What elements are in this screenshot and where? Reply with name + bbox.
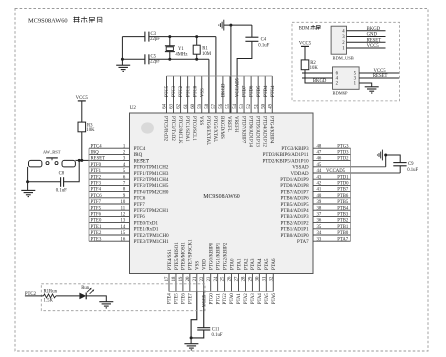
svg-text:RESET: RESET bbox=[91, 157, 106, 162]
U2 pin 27 PTA1 bbox=[235, 258, 243, 292]
svg-text:PTA1: PTA1 bbox=[237, 293, 242, 305]
svg-text:PTC4: PTC4 bbox=[91, 144, 103, 149]
svg-text:PTB2/AD1P2: PTB2/AD1P2 bbox=[281, 221, 310, 226]
svg-text:RESET: RESET bbox=[373, 74, 388, 79]
U2 pin 37 PTB3/AD1P3 bbox=[281, 213, 351, 221]
svg-text:MC9S08AW60: MC9S08AW60 bbox=[28, 18, 68, 25]
U2 pin 52 PTD6/AD1P14 bbox=[247, 76, 252, 147]
wire crystal bottom left segment bbox=[122, 58, 144, 60]
svg-text:PTC3/TxD2: PTC3/TxD2 bbox=[170, 116, 175, 141]
svg-text:PTD7/KBIP7: PTD7/KBIP7 bbox=[240, 116, 245, 144]
svg-text:PTF3/TPM1CH5: PTF3/TPM1CH5 bbox=[134, 184, 169, 189]
svg-text:55: 55 bbox=[226, 103, 231, 108]
svg-text:PTB7: PTB7 bbox=[337, 188, 349, 193]
svg-text:R1: R1 bbox=[202, 47, 208, 52]
junction R1 top bbox=[195, 35, 198, 38]
svg-text:U2: U2 bbox=[130, 106, 137, 111]
svg-text:PTF5: PTF5 bbox=[91, 206, 102, 211]
U2 pin 56 BKGD/MS bbox=[219, 76, 224, 139]
svg-text:PTF0/TPM1CH2: PTF0/TPM1CH2 bbox=[134, 166, 169, 171]
U2 pin 6 PTF2/TPM1CH4 bbox=[89, 175, 169, 183]
svg-text:PTD2: PTD2 bbox=[337, 157, 349, 162]
crystal Y1 bbox=[165, 37, 188, 60]
svg-text:VCCAD5: VCCAD5 bbox=[326, 169, 346, 174]
svg-text:BDM6P: BDM6P bbox=[333, 91, 349, 96]
svg-text:PTE3: PTE3 bbox=[91, 237, 102, 242]
svg-text:PTF6: PTF6 bbox=[134, 215, 146, 220]
junction at C5/ground bbox=[121, 58, 124, 61]
svg-text:PTE0: PTE0 bbox=[91, 219, 102, 224]
svg-text:PTG5/XTAL: PTG5/XTAL bbox=[212, 116, 217, 142]
svg-text:46: 46 bbox=[317, 157, 322, 162]
svg-text:PTA1: PTA1 bbox=[237, 258, 242, 270]
svg-text:PTF7: PTF7 bbox=[134, 203, 146, 208]
svg-text:31: 31 bbox=[262, 276, 267, 281]
svg-text:PTG2: PTG2 bbox=[223, 293, 228, 305]
svg-text:PTA0: PTA0 bbox=[230, 293, 235, 305]
svg-text:VCC5: VCC5 bbox=[76, 96, 89, 101]
svg-text:PTB7/AD1P7: PTB7/AD1P7 bbox=[281, 190, 310, 195]
wire XTAL node down to pin 57 bbox=[215, 37, 217, 113]
U2 pin 36 PTB2/AD1P2 bbox=[281, 219, 351, 227]
svg-text:52: 52 bbox=[247, 103, 252, 108]
wire BDM_USB pin 3 bbox=[347, 35, 386, 37]
svg-text:PTG4/KBIP4: PTG4/KBIP4 bbox=[268, 116, 273, 144]
svg-text:PTG1/KBIP1: PTG1/KBIP1 bbox=[216, 242, 221, 270]
svg-text:54: 54 bbox=[233, 103, 238, 108]
svg-text:PTA5: PTA5 bbox=[265, 258, 270, 270]
svg-text:PTC2/MCLK: PTC2/MCLK bbox=[177, 116, 182, 144]
U2 pin 13 PTE0/TxD1 bbox=[89, 219, 159, 227]
resistor R1 10M bbox=[193, 37, 212, 60]
svg-text:13: 13 bbox=[120, 219, 125, 224]
U2 pin 54 VREFH bbox=[233, 76, 238, 133]
junction Y1 top bbox=[168, 35, 171, 38]
U2 pin 14 PTE1/RxD1 bbox=[89, 225, 159, 233]
wire VCC5 to R2 bbox=[304, 46, 306, 60]
svg-text:PTB0: PTB0 bbox=[337, 231, 349, 236]
svg-text:PTD0/AD1P8: PTD0/AD1P8 bbox=[280, 184, 309, 189]
svg-text:14: 14 bbox=[120, 225, 125, 230]
U2 pin 43 PTD1/AD1P9 bbox=[280, 175, 350, 183]
wire resistor to LED bbox=[56, 295, 80, 297]
svg-text:GND: GND bbox=[367, 33, 378, 38]
junction VREFL bbox=[229, 24, 232, 27]
U2 pin 60 PTC0/SCL1 bbox=[191, 76, 196, 141]
svg-text:59: 59 bbox=[198, 103, 203, 108]
U2 pin 8 PTF4/TPM2CH0 bbox=[89, 188, 169, 196]
svg-text:PTE1/RxD1: PTE1/RxD1 bbox=[134, 228, 159, 233]
svg-text:62: 62 bbox=[177, 103, 182, 108]
svg-text:PTA7: PTA7 bbox=[297, 240, 309, 245]
svg-text:IRQ: IRQ bbox=[134, 153, 143, 158]
svg-text:PTE2/TPM1CH0: PTE2/TPM1CH0 bbox=[134, 234, 170, 239]
svg-text:PTA4: PTA4 bbox=[258, 258, 263, 270]
junction VSSAD ground bbox=[384, 154, 387, 157]
svg-text:PTB4/AD1P4: PTB4/AD1P4 bbox=[281, 209, 310, 214]
resistor R2 10K bbox=[301, 60, 318, 71]
wire C4 top stem bbox=[251, 25, 253, 37]
wire R2 to BKGD row bbox=[305, 70, 333, 83]
connector BDM6P bbox=[333, 67, 360, 96]
VCC5 power above R3 bbox=[76, 96, 89, 101]
svg-text:RESET: RESET bbox=[134, 159, 149, 164]
svg-text:58: 58 bbox=[205, 103, 210, 108]
svg-text:VSS: VSS bbox=[198, 116, 203, 125]
svg-text:PTG4: PTG4 bbox=[271, 85, 276, 97]
wire BDM6P pin 4 stub bbox=[302, 77, 333, 79]
svg-text:PTF6: PTF6 bbox=[91, 213, 102, 218]
svg-text:PTA6: PTA6 bbox=[272, 293, 277, 305]
bottom net-label row edge bbox=[169, 291, 273, 293]
svg-text:40: 40 bbox=[317, 194, 322, 199]
svg-text:VCC5: VCC5 bbox=[367, 44, 380, 49]
svg-text:22: 22 bbox=[200, 276, 205, 281]
U2 pin 38 PTB4/AD1P4 bbox=[281, 206, 351, 214]
svg-text:PTE4: PTE4 bbox=[168, 293, 173, 304]
svg-text:35: 35 bbox=[317, 225, 322, 230]
svg-text:PTE2: PTE2 bbox=[91, 231, 102, 236]
svg-text:R1Run: R1Run bbox=[44, 290, 58, 295]
svg-text:PTE6: PTE6 bbox=[182, 293, 187, 304]
capacitor C9 0.1uF bbox=[393, 162, 418, 173]
U2 pin 47 PTD3/KBIP6/AD1P11 bbox=[263, 151, 351, 159]
svg-text:30: 30 bbox=[255, 276, 260, 281]
svg-text:53: 53 bbox=[240, 103, 245, 108]
svg-text:PTG3: PTG3 bbox=[337, 144, 349, 149]
svg-text:33: 33 bbox=[317, 237, 322, 242]
svg-text:32: 32 bbox=[269, 276, 274, 281]
junction Y1 bottom bbox=[168, 58, 171, 61]
U2 pin 34 PTB0/AD1P0 bbox=[281, 231, 351, 239]
svg-text:PTG3/KBIP3: PTG3/KBIP3 bbox=[281, 147, 309, 152]
svg-text:PTE5/MISO1: PTE5/MISO1 bbox=[175, 242, 180, 270]
wire C9 bottom to VDDAD row bbox=[399, 166, 401, 173]
wire EXTAL node down to pin 58 bbox=[208, 59, 210, 113]
svg-text:VSS: VSS bbox=[196, 261, 201, 270]
svg-text:C11: C11 bbox=[212, 327, 220, 332]
svg-text:VDDAD: VDDAD bbox=[291, 172, 309, 177]
svg-text:BKGD/MS: BKGD/MS bbox=[219, 116, 224, 139]
svg-text:0.1uF: 0.1uF bbox=[56, 189, 67, 194]
svg-text:PTD0: PTD0 bbox=[337, 182, 349, 187]
U2 pin 44 VDDAD bbox=[291, 169, 401, 177]
U2 pin 4 PTF0/TPM1CH2 bbox=[89, 163, 169, 171]
svg-text:56: 56 bbox=[219, 103, 224, 108]
wire BDM6P pin 5 to VCC5 bbox=[359, 72, 399, 74]
svg-text:43: 43 bbox=[317, 175, 322, 180]
right net-label column edge bbox=[350, 148, 352, 241]
U2 pin 63 PTC3/TxD2 bbox=[170, 76, 175, 141]
U2 pin 49 PTG4/KBIP4 bbox=[268, 76, 273, 144]
U2 pin 28 PTA2 bbox=[242, 258, 250, 292]
U2 pin 58 PTG6/EXTAL bbox=[205, 76, 210, 145]
svg-text:PTC6: PTC6 bbox=[91, 194, 103, 199]
svg-text:39: 39 bbox=[317, 200, 322, 205]
wire RESET row to switch bbox=[75, 159, 89, 161]
U2 pin 41 PTB7/AD1P7 bbox=[281, 188, 351, 196]
ground below C11 bbox=[184, 344, 198, 350]
svg-text:PTF7: PTF7 bbox=[91, 200, 102, 205]
top net-label row edge bbox=[167, 75, 273, 77]
BDM section title bbox=[299, 25, 321, 31]
wire BDM6P pin 3 to RESET bbox=[359, 77, 399, 79]
wire BDM_USB pin 1 bbox=[347, 47, 386, 49]
svg-text:MC9S08AW60: MC9S08AW60 bbox=[203, 194, 240, 200]
svg-text:PTC0: PTC0 bbox=[193, 85, 198, 97]
U2 pin 21 VSS bbox=[193, 261, 201, 292]
svg-text:29: 29 bbox=[249, 276, 254, 281]
svg-text:PTB0/AD1P0: PTB0/AD1P0 bbox=[281, 234, 310, 239]
svg-text:PTE0/TxD1: PTE0/TxD1 bbox=[134, 221, 159, 226]
svg-text:PTE3/TPM1CH1: PTE3/TPM1CH1 bbox=[134, 240, 170, 245]
svg-text:0.1uF: 0.1uF bbox=[212, 333, 223, 338]
svg-text:10K: 10K bbox=[86, 128, 95, 133]
U2 pin 62 PTC2/MCLK bbox=[177, 76, 182, 144]
U2 pin 46 PTD2/KBIP5/AD1P10 bbox=[262, 157, 350, 165]
svg-text:64: 64 bbox=[163, 103, 168, 108]
U2 pin 40 PTB6/AD1P6 bbox=[281, 194, 351, 202]
U2 pin 42 PTD0/AD1P8 bbox=[280, 182, 350, 190]
svg-text:VSS: VSS bbox=[200, 88, 205, 97]
svg-text:AW_RST: AW_RST bbox=[43, 149, 61, 154]
svg-text:VCC5: VCC5 bbox=[299, 42, 312, 47]
svg-text:PTE7: PTE7 bbox=[188, 293, 193, 304]
resistor R3 10K bbox=[78, 122, 95, 133]
svg-text:PTF1/TPM1CH3: PTF1/TPM1CH3 bbox=[134, 172, 169, 177]
wire PTC2 to resistor bbox=[25, 295, 44, 297]
svg-text:PTA2: PTA2 bbox=[244, 258, 249, 270]
svg-text:PTB5/AD1P5: PTB5/AD1P5 bbox=[281, 203, 310, 208]
svg-text:PTB1/AD1P1: PTB1/AD1P1 bbox=[281, 228, 310, 233]
U2 pin 45 VSSAD bbox=[292, 163, 386, 171]
LED indicator dashed box bbox=[41, 284, 205, 311]
svg-text:PTF1: PTF1 bbox=[91, 169, 102, 174]
svg-text:PTD6: PTD6 bbox=[250, 85, 255, 97]
svg-text:BDM: BDM bbox=[299, 26, 311, 31]
svg-text:4MHz: 4MHz bbox=[175, 52, 187, 57]
svg-text:PTD4: PTD4 bbox=[264, 85, 269, 97]
U2 pin 23 PTG0/KBIP0 bbox=[207, 242, 215, 291]
svg-text:42: 42 bbox=[317, 182, 322, 187]
svg-text:PTB3: PTB3 bbox=[337, 213, 349, 218]
connector BDM_USB bbox=[331, 26, 354, 60]
svg-text:21: 21 bbox=[193, 276, 198, 281]
svg-text:50: 50 bbox=[261, 103, 266, 108]
wire ground stem below C11 bbox=[190, 338, 192, 344]
svg-text:BDM_USB: BDM_USB bbox=[333, 56, 354, 61]
U2 pin 57 PTG5/XTAL bbox=[212, 76, 217, 142]
svg-text:PTA7: PTA7 bbox=[337, 237, 349, 242]
svg-text:26: 26 bbox=[228, 276, 233, 281]
capacitor C11 0.1uF bbox=[197, 327, 223, 338]
svg-text:PTG2/KBIP2: PTG2/KBIP2 bbox=[223, 242, 228, 270]
svg-text:PTA5: PTA5 bbox=[265, 293, 270, 305]
svg-text:PTB5: PTB5 bbox=[337, 200, 349, 205]
svg-text:PTE7/SPSCK1: PTE7/SPSCK1 bbox=[189, 239, 194, 270]
svg-text:C4: C4 bbox=[261, 37, 267, 42]
svg-text:VDD: VDD bbox=[203, 259, 208, 270]
U2 pin 10 PTF7 bbox=[89, 200, 145, 208]
U2 pin 48 PTG3/KBIP3 bbox=[281, 144, 350, 152]
svg-text:PTF0: PTF0 bbox=[91, 163, 102, 168]
svg-text:PTC3: PTC3 bbox=[172, 85, 177, 97]
capacitor C5 bbox=[145, 54, 160, 64]
svg-text:PTC5/RxD2: PTC5/RxD2 bbox=[163, 116, 168, 142]
U2 pin 35 PTB1/AD1P1 bbox=[281, 225, 351, 233]
svg-text:0.1uF: 0.1uF bbox=[407, 168, 418, 173]
svg-text:45: 45 bbox=[317, 163, 322, 168]
svg-text:0.1uF: 0.1uF bbox=[258, 44, 269, 49]
wire BDM_USB pin 4 bbox=[347, 30, 386, 32]
svg-text:PTC6: PTC6 bbox=[134, 197, 146, 202]
U2 pin 31 PTA5 bbox=[262, 258, 270, 292]
U2 pin 61 PTC1/SDA1 bbox=[184, 76, 189, 142]
wire C8 to RESET junction bbox=[64, 160, 80, 181]
svg-text:PTA2: PTA2 bbox=[244, 293, 249, 305]
svg-text:PTB6: PTB6 bbox=[337, 194, 349, 199]
svg-text:41: 41 bbox=[317, 188, 322, 193]
U2 pin 26 PTA0 bbox=[228, 258, 236, 292]
wire ground stem below C5 bbox=[121, 59, 123, 65]
svg-text:PTC4: PTC4 bbox=[134, 147, 146, 152]
U2 pin 32 PTA6 bbox=[269, 258, 277, 292]
svg-text:BKGD: BKGD bbox=[313, 79, 327, 84]
U2 pin 17 PTE4/SS1 bbox=[165, 249, 173, 292]
svg-text:12: 12 bbox=[120, 213, 125, 218]
svg-text:60: 60 bbox=[191, 103, 196, 108]
svg-text:PTD5/AD1P13: PTD5/AD1P13 bbox=[254, 116, 259, 147]
svg-text:PTC1/SDA1: PTC1/SDA1 bbox=[184, 116, 189, 142]
svg-text:22pF: 22pF bbox=[150, 37, 160, 42]
svg-text:PTF2: PTF2 bbox=[91, 175, 102, 180]
svg-text:PTF4/TPM2CH0: PTF4/TPM2CH0 bbox=[134, 190, 169, 195]
svg-text:PTE1: PTE1 bbox=[91, 225, 102, 230]
svg-text:BKGD: BKGD bbox=[367, 27, 381, 32]
svg-text:VREFH: VREFH bbox=[233, 116, 238, 133]
svg-text:PTF5/TPM2CH1: PTF5/TPM2CH1 bbox=[134, 209, 169, 214]
svg-text:28: 28 bbox=[242, 276, 247, 281]
svg-text:48: 48 bbox=[317, 144, 322, 149]
svg-text:49: 49 bbox=[268, 103, 273, 108]
wire R3 to RESET node bbox=[81, 132, 83, 161]
svg-text:PTD2/KBIP5/AD1P10: PTD2/KBIP5/AD1P10 bbox=[262, 159, 309, 164]
U2 pin 50 PTD4/AD1P12 bbox=[261, 76, 266, 147]
U2 pin 2 IRQ bbox=[89, 151, 143, 159]
svg-text:61: 61 bbox=[184, 103, 189, 108]
pushbutton AW_RST bbox=[29, 149, 76, 167]
left net-label column edge bbox=[88, 148, 90, 241]
wire VDD pin 22 down bbox=[203, 292, 205, 328]
U2 pin 55 VREFL bbox=[226, 76, 231, 132]
U2 pin 59 VSS bbox=[198, 76, 203, 125]
svg-text:22pF: 22pF bbox=[150, 60, 160, 65]
wire C11 bottom to junction bbox=[191, 330, 204, 338]
LED Run bbox=[79, 286, 94, 300]
chip U2 MC9S08AW60 body bbox=[130, 113, 314, 274]
svg-text:PTD1/AD1P9: PTD1/AD1P9 bbox=[280, 178, 309, 183]
svg-text:PTE4/SS1: PTE4/SS1 bbox=[168, 249, 173, 270]
U2 pin 25 PTG2/KBIP2 bbox=[221, 242, 229, 291]
svg-text:PTC0/SCL1: PTC0/SCL1 bbox=[191, 116, 196, 141]
svg-text:PTB2: PTB2 bbox=[337, 219, 349, 224]
svg-text:47: 47 bbox=[317, 151, 322, 156]
U2 pin 12 PTF6 bbox=[89, 213, 145, 221]
svg-text:1.5K: 1.5K bbox=[44, 298, 54, 303]
svg-text:VCCAD5: VCCAD5 bbox=[236, 77, 241, 97]
U2 pin 11 PTF5/TPM2CH1 bbox=[89, 206, 169, 214]
wire BDM6P pin 6 stub bbox=[302, 72, 333, 74]
resistor R1Run 1.5K (zigzag) bbox=[44, 290, 58, 304]
wire bottom row to C8 bbox=[28, 181, 61, 183]
svg-text:C8: C8 bbox=[59, 171, 65, 176]
wire left vertical joining C3 and C5 bbox=[121, 37, 123, 60]
ground in LED box bbox=[99, 302, 113, 308]
U2 pin 16 PTE3/TPM1CH1 bbox=[89, 237, 169, 245]
ground at VREFL (sideways) bbox=[219, 20, 224, 31]
svg-text:C9: C9 bbox=[408, 162, 414, 167]
svg-text:37: 37 bbox=[317, 213, 322, 218]
wire switch left terminal down bbox=[27, 167, 29, 182]
wire XTAL bottom node bbox=[149, 58, 209, 60]
wire C4 bottom stem to VREFH pin 54 bbox=[237, 41, 252, 113]
svg-text:PTF3: PTF3 bbox=[91, 182, 102, 187]
svg-text:24: 24 bbox=[214, 276, 219, 281]
svg-text:VSSAD: VSSAD bbox=[292, 166, 309, 171]
svg-text:PTB4: PTB4 bbox=[337, 206, 349, 211]
svg-text:51: 51 bbox=[254, 103, 259, 108]
svg-text:19: 19 bbox=[179, 276, 184, 281]
wire VSSAD pin 45 up to ground junction bbox=[385, 155, 387, 167]
svg-text:Run: Run bbox=[81, 286, 90, 291]
U2 pin 18 PTE5/MISO1 bbox=[172, 242, 180, 292]
svg-text:36: 36 bbox=[317, 219, 322, 224]
title MC9S08AW60 minimal system bbox=[28, 17, 102, 25]
capacitor C8 0.1uF reset bbox=[56, 171, 67, 193]
junction C8 branch/RESET bbox=[78, 159, 81, 162]
svg-text:PTG6/EXTAL: PTG6/EXTAL bbox=[205, 116, 210, 145]
BDM dashed box bbox=[292, 22, 400, 101]
svg-text:PTB1: PTB1 bbox=[337, 225, 349, 230]
svg-text:PTC1: PTC1 bbox=[186, 85, 191, 97]
svg-text:10: 10 bbox=[120, 200, 125, 205]
svg-text:63: 63 bbox=[170, 103, 175, 108]
svg-text:25: 25 bbox=[221, 276, 226, 281]
svg-text:PTE5: PTE5 bbox=[175, 293, 180, 304]
svg-text:PTC2: PTC2 bbox=[179, 85, 184, 97]
ground below BDM6P bbox=[365, 87, 379, 93]
U2 pin 20 PTE7/SPSCK1 bbox=[186, 239, 194, 292]
U2 pin 7 PTF3/TPM1CH5 bbox=[89, 182, 169, 190]
U2 pin 24 PTG1/KBIP1 bbox=[214, 242, 222, 291]
ground at VSSAD (sideways) bbox=[377, 150, 382, 161]
wire EXTAL top node bbox=[149, 36, 216, 38]
capacitor C4 0.1uF bbox=[245, 37, 269, 48]
U2 pin 29 PTA3 bbox=[249, 258, 257, 292]
wire BDM6P pin 1 to ground bbox=[359, 83, 372, 87]
svg-text:Y1: Y1 bbox=[178, 47, 184, 52]
svg-text:23: 23 bbox=[207, 276, 212, 281]
wire VSS pin 21 to ground bbox=[191, 292, 197, 338]
svg-text:RESET: RESET bbox=[367, 38, 382, 43]
svg-text:PTD3: PTD3 bbox=[337, 151, 349, 156]
svg-text:PTB3/AD1P3: PTB3/AD1P3 bbox=[281, 215, 310, 220]
U2 pin 22 VDD bbox=[200, 259, 208, 292]
svg-text:PTD3/KBIP6/AD1P11: PTD3/KBIP6/AD1P11 bbox=[263, 153, 309, 158]
svg-text:PTB6/AD1P6: PTB6/AD1P6 bbox=[281, 197, 310, 202]
U2 pin 39 PTB5/AD1P5 bbox=[281, 200, 351, 208]
wire ground junction to C9 top bbox=[386, 155, 401, 163]
